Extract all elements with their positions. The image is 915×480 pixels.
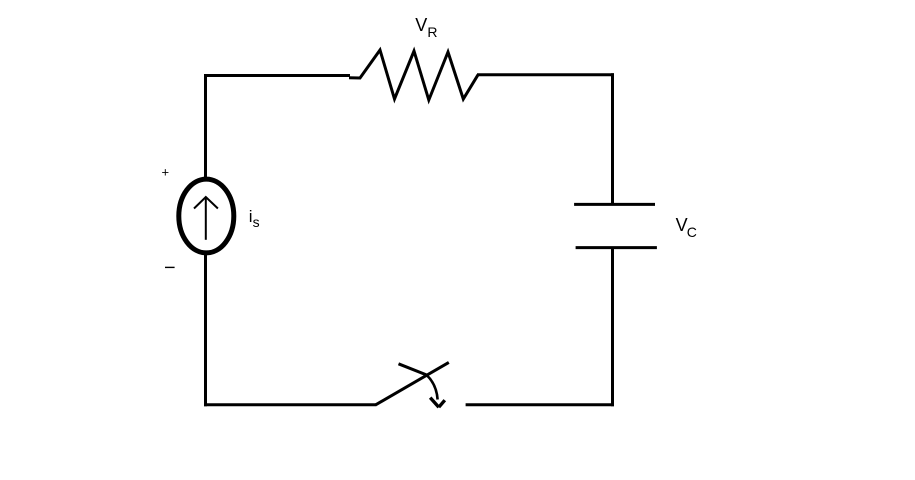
svg-text:C: C xyxy=(687,224,697,240)
svg-text:R: R xyxy=(427,24,437,40)
svg-text:+: + xyxy=(162,165,170,180)
svg-text:V: V xyxy=(415,15,427,35)
svg-text:s: s xyxy=(253,214,260,230)
